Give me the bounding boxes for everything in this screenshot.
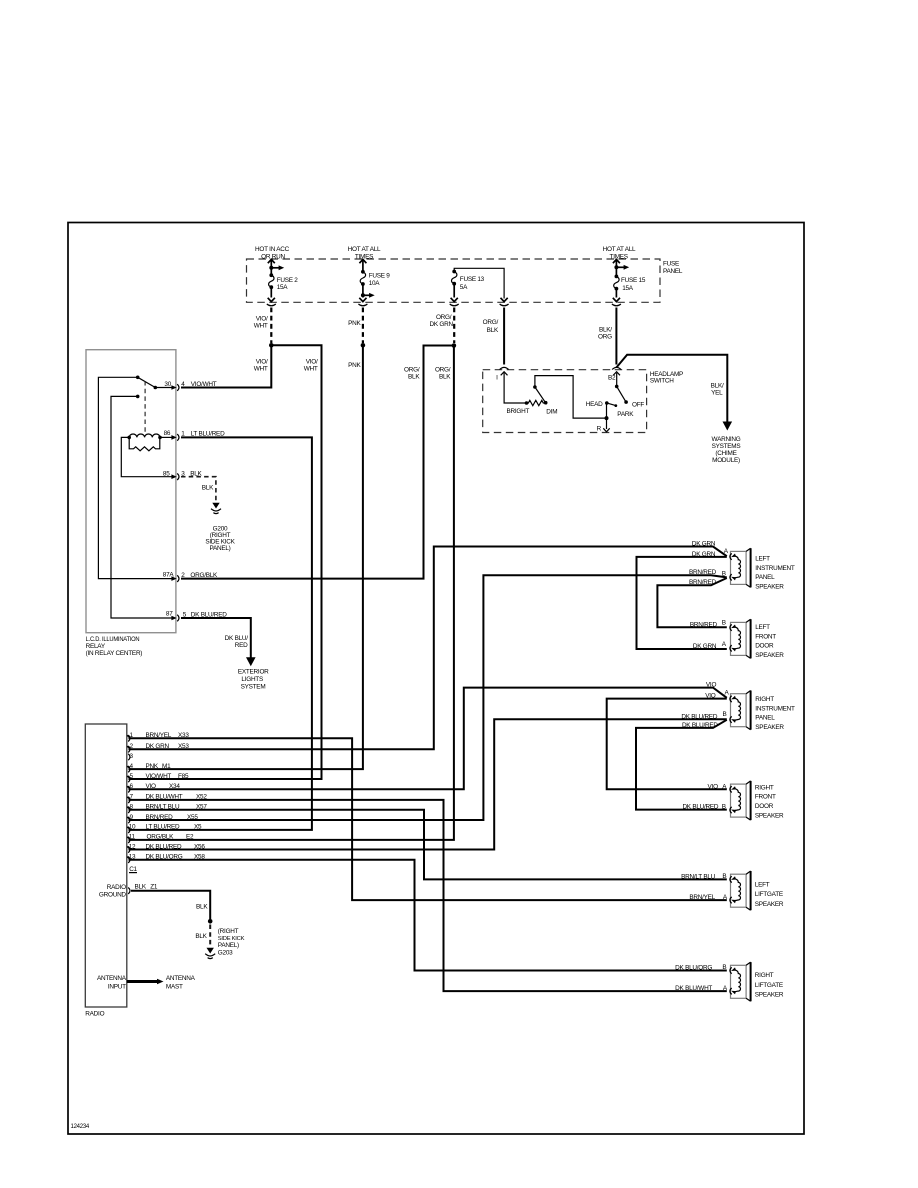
wire DK BLU/RED right instrument panel speaker B to right front door speaker B	[636, 720, 727, 810]
connector entry terminal I	[496, 367, 509, 381]
label ORG/DK GRN	[430, 314, 454, 328]
label VIO/WHT upper	[254, 316, 268, 330]
switch lever B2 to OFF	[615, 373, 644, 409]
svg-text:10A: 10A	[369, 280, 381, 287]
svg-text:124234: 124234	[71, 1124, 90, 1130]
svg-text:ORG/BLK: ORG/BLK	[147, 834, 175, 841]
wire DK GRN left instrument panel speaker A to left front door speaker A	[637, 557, 727, 649]
svg-text:PANEL: PANEL	[663, 268, 683, 275]
wire BLK Z1 to ground G203	[131, 891, 210, 922]
svg-text:LEFT: LEFT	[755, 882, 770, 889]
fuse F15 15A with feed arrow and branch arrow	[612, 259, 646, 305]
svg-text:(IN RELAY CENTER): (IN RELAY CENTER)	[86, 650, 143, 657]
svg-text:B: B	[722, 804, 726, 811]
svg-text:BLK: BLK	[439, 373, 451, 380]
svg-text:SWITCH: SWITCH	[650, 378, 674, 385]
label RIGHT FRONT DOOR SPEAKER	[755, 784, 784, 819]
svg-text:BRN/LT BLU: BRN/LT BLU	[681, 874, 715, 881]
svg-text:ORG/: ORG/	[404, 366, 420, 373]
svg-text:DK GRN: DK GRN	[430, 321, 454, 328]
svg-text:15A: 15A	[622, 285, 634, 292]
svg-text:FUSE 2: FUSE 2	[277, 277, 299, 284]
relay switch common node	[136, 376, 140, 380]
wire BLK dashed to ground	[209, 925, 211, 947]
svg-text:EXTERIOR: EXTERIOR	[238, 669, 269, 676]
svg-text:BRN/RED: BRN/RED	[690, 621, 718, 628]
wire LT BLU/RED relay pin 86 to radio pin 10	[129, 437, 312, 830]
wire ORG/BLK to relay pin 87A	[181, 346, 454, 579]
label wires VIO / DK BLU/RED at SP4	[682, 783, 727, 810]
svg-text:E2: E2	[186, 834, 194, 841]
wire BLK from pin 85 to ground G200	[181, 477, 216, 502]
svg-text:VIO: VIO	[706, 682, 717, 689]
svg-text:INSTRUMENT: INSTRUMENT	[755, 705, 795, 712]
svg-text:ORG: ORG	[598, 334, 612, 341]
svg-text:BRIGHT: BRIGHT	[507, 408, 530, 415]
svg-text:HEAD: HEAD	[586, 401, 603, 408]
feed label HOT AT ALL TIMES (fuse 15)	[603, 246, 636, 260]
svg-text:DK BLU/RED: DK BLU/RED	[681, 713, 717, 720]
relay resistor parallel with coil	[129, 437, 160, 450]
label ORG/BLK right	[435, 366, 451, 380]
svg-text:VIO/: VIO/	[256, 359, 268, 366]
svg-text:M1: M1	[162, 763, 171, 770]
node splice BLK	[208, 919, 213, 924]
label LEFT INSTRUMENT PANEL SPEAKER	[755, 556, 795, 591]
svg-text:YEL: YEL	[711, 390, 723, 397]
svg-text:BRN/RED: BRN/RED	[689, 569, 717, 576]
svg-text:87A: 87A	[163, 572, 175, 579]
label ORG/BLK left	[404, 366, 420, 380]
svg-text:ANTENNA: ANTENNA	[97, 975, 127, 982]
node splice VIO/WHT	[269, 343, 274, 348]
label G200 (RIGHT SIDE KICK PANEL)	[205, 525, 235, 552]
svg-text:SPEAKER: SPEAKER	[755, 991, 784, 998]
label VIO/WHT right	[304, 359, 318, 373]
wire switch internal I to BRIGHT	[504, 373, 526, 403]
relay armature lever to pin 30	[138, 377, 173, 389]
svg-text:LT BLU/RED: LT BLU/RED	[146, 824, 180, 831]
wire VIO/WHT to relay pin 30	[181, 345, 271, 387]
wire ORG/BLK to radio pin 11	[129, 346, 454, 840]
svg-text:B2: B2	[608, 375, 616, 382]
radio pin 2 DK GRN X53	[127, 743, 189, 752]
label wires BRN/LT BLU / BRN/YEL at SP5	[681, 873, 728, 901]
svg-text:BLK: BLK	[202, 485, 214, 492]
svg-text:SPEAKER: SPEAKER	[755, 652, 784, 659]
svg-text:DK GRN: DK GRN	[693, 643, 717, 650]
label RIGHT LIFTGATE SPEAKER	[755, 972, 784, 998]
svg-text:A: A	[724, 548, 729, 555]
relay coil	[127, 434, 172, 439]
svg-text:WHT: WHT	[304, 366, 318, 373]
svg-text:30: 30	[164, 381, 171, 388]
wire DK BLU/RED relay pin 87 to exterior lights	[181, 618, 251, 660]
label BLK/YEL	[711, 382, 724, 396]
radio pin 4 PNK M1	[127, 763, 171, 772]
switch lever dim	[533, 385, 545, 402]
speaker SP1 left instrument panel	[730, 548, 751, 587]
svg-text:VIO/WHT: VIO/WHT	[146, 773, 172, 780]
speaker SP2 left front door	[730, 619, 751, 658]
label RIGHT INSTRUMENT PANEL SPEAKER	[755, 696, 795, 731]
contact HEAD with lever to PARK	[586, 401, 634, 418]
speaker SP5 left liftgate	[730, 871, 751, 910]
svg-text:BLK/: BLK/	[711, 382, 724, 389]
svg-text:RADIO: RADIO	[107, 884, 126, 891]
svg-text:LEFT: LEFT	[755, 624, 770, 631]
svg-text:RADIO: RADIO	[85, 1011, 104, 1018]
svg-text:87: 87	[166, 611, 173, 618]
relay pin 87A	[163, 572, 218, 582]
svg-text:VIO: VIO	[708, 783, 719, 790]
svg-text:PANEL: PANEL	[755, 574, 775, 581]
wire DK BLU/RED radio pin 12 to right instrument panel speaker B	[129, 719, 727, 849]
svg-text:BLK: BLK	[195, 933, 207, 940]
svg-text:10: 10	[129, 824, 136, 831]
radio pin 10 LT BLU/RED X5	[127, 824, 202, 833]
svg-text:A: A	[723, 985, 728, 992]
radio pin 12 DK BLU/RED X56	[127, 843, 205, 852]
svg-text:C1: C1	[129, 866, 137, 873]
svg-text:VIO/: VIO/	[256, 316, 268, 323]
svg-text:DK BLU/RED: DK BLU/RED	[682, 804, 718, 811]
svg-text:5A: 5A	[460, 284, 468, 291]
label wires DK GRN / BRN/RED at SP1	[689, 541, 729, 587]
svg-text:LIFTGATE: LIFTGATE	[755, 891, 783, 898]
svg-text:PNK: PNK	[348, 320, 361, 327]
relay pin 85	[163, 471, 203, 480]
svg-text:DK BLU/ORG: DK BLU/ORG	[675, 965, 712, 972]
svg-text:SYSTEMS: SYSTEMS	[712, 443, 741, 450]
wire ORG/DK GRN dashed from fuse 13	[453, 308, 455, 344]
svg-text:I: I	[496, 375, 498, 382]
label ANTENNA INPUT	[97, 975, 127, 990]
radio pin 3	[128, 753, 133, 760]
wire antenna lead	[127, 979, 164, 985]
label wires BRN/RED / DK GRN at SP2	[690, 619, 727, 650]
svg-text:DOOR: DOOR	[755, 643, 774, 650]
headlamp switch dashed box	[483, 370, 647, 433]
radio pin 13 DK BLU/ORG X58	[127, 854, 205, 863]
radio pin 9 BRN/RED X55	[127, 814, 198, 823]
wire ORG/BLK from fuse 13 to headlamp switch terminal I	[503, 308, 505, 365]
radio pin 8 BRN/LT BLU X57	[127, 804, 207, 813]
svg-text:(RIGHT: (RIGHT	[218, 928, 239, 935]
svg-text:MAST: MAST	[166, 983, 183, 990]
label ANTENNA MAST	[166, 975, 196, 990]
svg-text:RIGHT: RIGHT	[755, 784, 774, 791]
terminal R exit arrow	[597, 418, 610, 432]
svg-text:DK BLU/WHT: DK BLU/WHT	[675, 985, 712, 992]
svg-text:Z1: Z1	[150, 883, 158, 890]
svg-text:ORG/: ORG/	[435, 366, 451, 373]
speaker SP6 right liftgate	[730, 962, 751, 1001]
label LEFT FRONT DOOR SPEAKER	[755, 624, 784, 659]
wire VIO radio pin 6 to right instrument panel speaker A	[129, 688, 727, 790]
node splice ORG/BLK	[452, 343, 457, 348]
svg-text:LIGHTS: LIGHTS	[241, 676, 263, 683]
svg-text:PANEL): PANEL)	[218, 942, 239, 949]
label VIO/WHT left	[254, 359, 268, 373]
relay actuator dashed link	[144, 381, 146, 434]
wire BRN/RED radio pin 9 to left instrument panel speaker B	[129, 575, 727, 820]
label HEADLAMP SWITCH	[650, 371, 683, 385]
svg-text:DOOR: DOOR	[755, 803, 774, 810]
svg-text:DK GRN: DK GRN	[692, 551, 716, 558]
radio pin 6 VIO X34	[127, 783, 180, 792]
relay U1 L.C.D. illumination relay box	[86, 350, 176, 633]
wire BLK/YEL branch to warning systems	[616, 355, 727, 424]
svg-text:HOT AT ALL: HOT AT ALL	[348, 246, 381, 253]
wire BLK/ORG from fuse 15 to headlamp switch terminal B2	[615, 308, 617, 365]
wire DK BLU/ORG radio pin 13 to right liftgate speaker B	[129, 860, 727, 971]
relay coil left lead to pin 85	[121, 437, 172, 476]
svg-text:DK GRN: DK GRN	[692, 541, 716, 548]
label wires VIO / DK BLU/RED at SP3	[681, 682, 729, 729]
speaker SP3 right instrument panel	[730, 691, 751, 730]
svg-text:PANEL: PANEL	[755, 715, 775, 722]
svg-text:BLK: BLK	[408, 373, 420, 380]
svg-text:VIO/: VIO/	[306, 359, 318, 366]
relay pin 86	[164, 430, 225, 441]
svg-text:B: B	[722, 570, 726, 577]
label BLK/ORG	[598, 326, 612, 340]
svg-text:MODULE): MODULE)	[712, 457, 740, 464]
svg-text:WHT: WHT	[254, 366, 268, 373]
wire BRN/LT BLU radio pin 8 to left liftgate speaker B	[129, 810, 727, 880]
relay internal common wire to pin 87A	[98, 377, 172, 578]
svg-text:F85: F85	[178, 773, 189, 780]
wire VIO/WHT dashed from fuse 2	[270, 308, 272, 344]
svg-text:LIFTGATE: LIFTGATE	[755, 982, 783, 989]
svg-text:PNK: PNK	[146, 763, 159, 770]
svg-text:RED: RED	[235, 642, 248, 649]
speaker SP4 right front door	[730, 781, 751, 820]
svg-text:ORG/: ORG/	[483, 319, 499, 326]
svg-text:FUSE: FUSE	[663, 260, 679, 267]
svg-text:R: R	[597, 426, 602, 433]
ground G203	[205, 948, 215, 959]
wire PNK dashed from fuse 9	[362, 308, 364, 344]
svg-text:INSTRUMENT: INSTRUMENT	[755, 565, 795, 572]
svg-text:VIO/WHT: VIO/WHT	[191, 381, 217, 388]
label L.C.D. ILLUMINATION RELAY (IN RELAY CENTER)	[86, 636, 143, 657]
svg-text:A: A	[722, 641, 727, 648]
svg-text:FRONT: FRONT	[755, 794, 776, 801]
node splice PNK	[361, 343, 366, 348]
ground G200	[211, 503, 221, 514]
svg-text:FUSE 9: FUSE 9	[369, 273, 391, 280]
svg-text:GROUND: GROUND	[99, 892, 127, 899]
feed label HOT AT ALL TIMES (fuse 9)	[348, 246, 381, 260]
label ORG/BLK feed	[483, 319, 499, 334]
svg-text:HOT IN ACC: HOT IN ACC	[255, 246, 290, 253]
svg-text:B: B	[722, 619, 726, 626]
svg-text:DIM: DIM	[546, 408, 557, 415]
svg-text:OR RUN: OR RUN	[261, 253, 285, 260]
label EXTERIOR LIGHTS SYSTEM	[238, 669, 269, 691]
svg-text:B: B	[722, 711, 726, 718]
svg-text:85: 85	[163, 471, 170, 478]
radio pin 7 DK BLU/WHT X52	[127, 794, 207, 803]
wire DK GRN radio pin 2 to left instrument panel speaker A	[129, 547, 727, 750]
label DK BLU/RED	[225, 635, 249, 649]
svg-text:SPEAKER: SPEAKER	[755, 813, 784, 820]
connector entry terminal B2	[608, 367, 621, 381]
svg-text:X5: X5	[194, 824, 202, 831]
wire BRN/YEL radio pin 1 to left liftgate speaker A	[129, 738, 727, 900]
page border frame	[68, 223, 804, 1135]
node switch junction R	[605, 416, 609, 420]
contact BRIGHT with resistor to DIM	[507, 400, 558, 415]
svg-text:ORG/: ORG/	[436, 314, 452, 321]
svg-text:FRONT: FRONT	[755, 633, 776, 640]
svg-text:BLK: BLK	[135, 883, 147, 890]
svg-text:BRN/RED: BRN/RED	[689, 579, 717, 586]
svg-text:RIGHT: RIGHT	[755, 972, 774, 979]
relay pin 30	[164, 381, 216, 391]
svg-text:RIGHT: RIGHT	[755, 696, 774, 703]
svg-text:(CHIME: (CHIME	[715, 450, 736, 457]
label WARNING SYSTEMS (CHIME MODULE)	[712, 436, 741, 464]
fuse panel dashed box	[247, 259, 661, 302]
radio pin 5 VIO/WHT F85	[127, 773, 189, 782]
fuse F13 5A with feed link to ORG/BLK drop	[450, 268, 509, 306]
svg-text:FUSE 15: FUSE 15	[621, 277, 646, 284]
svg-text:11: 11	[129, 834, 136, 841]
wire VIO/WHT to radio pin 5	[129, 345, 322, 779]
svg-text:VIO: VIO	[705, 693, 716, 700]
feed label HOT IN ACC OR RUN	[255, 246, 290, 260]
svg-text:B: B	[722, 873, 726, 880]
wire VIO right instrument panel speaker A to right front door speaker A	[607, 699, 727, 790]
svg-text:FUSE 13: FUSE 13	[460, 276, 485, 283]
radio pin 1 BRN/YEL X33	[127, 732, 189, 741]
svg-text:OFF: OFF	[632, 401, 644, 408]
svg-text:A: A	[724, 689, 729, 696]
wire PNK to radio pin 4	[129, 345, 363, 769]
svg-text:SYSTEM: SYSTEM	[241, 684, 266, 691]
svg-text:A: A	[723, 894, 728, 901]
svg-text:WARNING: WARNING	[712, 436, 741, 443]
svg-text:86: 86	[164, 430, 171, 437]
connector label C1	[129, 866, 138, 873]
svg-text:DK BLU/RED: DK BLU/RED	[682, 722, 718, 729]
svg-text:PARK: PARK	[617, 411, 634, 418]
svg-text:15A: 15A	[277, 284, 289, 291]
svg-text:SPEAKER: SPEAKER	[755, 901, 784, 908]
radio ground pin BLK Z1	[128, 883, 158, 894]
svg-text:SPEAKER: SPEAKER	[755, 724, 784, 731]
fuse F9 10A with feed arrow and branch arrow	[358, 259, 390, 305]
svg-text:B: B	[722, 964, 726, 971]
svg-text:BLK: BLK	[487, 327, 499, 334]
svg-text:BRN/YEL: BRN/YEL	[689, 894, 715, 901]
wire DK BLU/WHT radio pin 7 to right liftgate speaker A	[129, 800, 727, 991]
wire switch internal lever to HEAD node	[535, 376, 607, 419]
svg-text:DK BLU/: DK BLU/	[225, 635, 249, 642]
svg-text:PNK: PNK	[348, 362, 361, 369]
svg-text:INPUT: INPUT	[108, 983, 126, 990]
svg-text:G203: G203	[218, 949, 233, 956]
svg-text:TIMES: TIMES	[355, 253, 373, 260]
label wires DK BLU/ORG / DK BLU/WHT at SP6	[675, 964, 728, 992]
svg-text:ORG/BLK: ORG/BLK	[190, 572, 218, 579]
label (RIGHT SIDE KICK PANEL) G203	[218, 928, 245, 956]
radio box	[85, 724, 127, 1007]
radio pin 11 ORG/BLK E2	[127, 834, 194, 843]
svg-text:SPEAKER: SPEAKER	[755, 584, 784, 591]
relay pin 87	[166, 611, 227, 622]
svg-text:3: 3	[130, 753, 134, 760]
fuse F2 15A with feed arrow and branch arrow	[267, 259, 298, 305]
svg-text:PANEL): PANEL)	[209, 545, 230, 552]
wire BRN/RED left instrument panel speaker B to left front door speaker B	[657, 578, 726, 627]
svg-text:HOT AT ALL: HOT AT ALL	[603, 246, 636, 253]
wire junction to HEAD contact	[606, 403, 608, 418]
svg-text:BLK: BLK	[196, 903, 208, 910]
relay lower contact wire to pin 87	[111, 395, 173, 618]
svg-text:LEFT: LEFT	[755, 556, 770, 563]
svg-text:TIMES: TIMES	[610, 253, 628, 260]
label LEFT LIFTGATE SPEAKER	[755, 882, 784, 908]
svg-text:BLK/: BLK/	[599, 326, 612, 333]
svg-text:WHT: WHT	[254, 323, 268, 330]
svg-text:ANTENNA: ANTENNA	[166, 975, 196, 982]
label RADIO GROUND	[99, 884, 127, 899]
